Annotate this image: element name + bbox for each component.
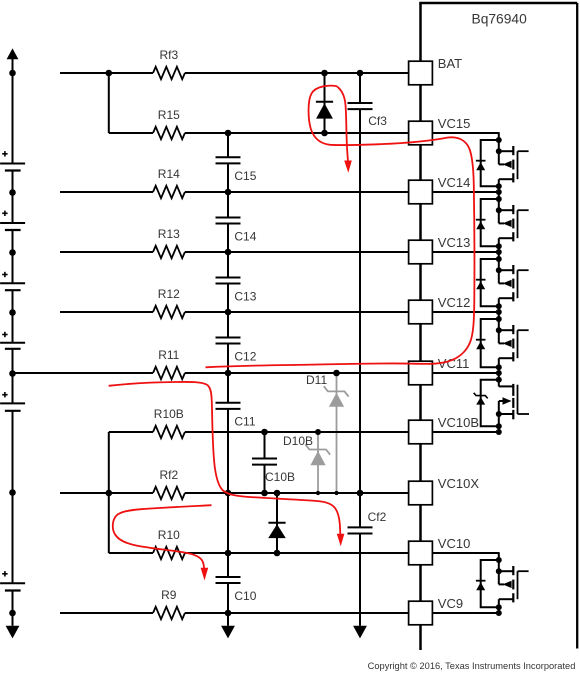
battery cell 5 negative plate (short) bbox=[5, 410, 21, 412]
svg-text:C10B: C10B bbox=[265, 470, 295, 484]
wire Q12 (VC12-VC11) node vertical lower bbox=[498, 358, 500, 373]
junction dot diode top at BAT row bbox=[321, 70, 328, 77]
wire VC9 row right segment to pin bbox=[185, 612, 409, 614]
wire Q12 (VC12-VC11) top connection from pin bbox=[432, 311, 498, 313]
battery stack wire segment 4 bbox=[12, 290, 14, 343]
diode (BAT-VC15) body line bbox=[324, 73, 326, 133]
junction dot bus at VC10X row bbox=[225, 490, 232, 497]
junction dot Rf2 row at x=108.5 bbox=[106, 490, 113, 497]
wire capacitor bus segment C14 to C13 bbox=[227, 224, 229, 278]
diode (VC10X-VC10) anode triangle bbox=[268, 524, 286, 538]
junction dot Q13 (VC13-VC12) bottom row node bbox=[496, 309, 502, 315]
diode Q10 (VC10-VC9) body-diode triangle bbox=[476, 582, 485, 590]
wire Q14 (VC14-VC13) node vertical upper bbox=[498, 191, 500, 210]
junction dot Q12 (VC12-VC11) gate node bbox=[496, 327, 502, 333]
wire VC12 row right segment to pin bbox=[185, 311, 409, 313]
wire Q12 (VC12-VC11) diode branch bbox=[481, 319, 499, 367]
svg-text:C10: C10 bbox=[234, 589, 256, 603]
capacitor C10 bbox=[216, 576, 241, 578]
wire Q10 (VC10-VC9) node vertical upper bbox=[498, 552, 500, 571]
wire VC10B row left segment bbox=[109, 431, 153, 433]
capacitor C10B bbox=[252, 458, 277, 460]
junction dot Q13 (VC13-VC12) diode-branch bottom bbox=[496, 303, 502, 309]
zener Q11 (VC11-VC10B) body-diode cathode bar with bent ends bbox=[474, 393, 488, 399]
wire Q15 (VC15-VC14) body contact bbox=[499, 163, 504, 165]
battery stack junction dot at VC13 level bbox=[9, 249, 16, 256]
zener Q11 (VC11-VC10B) body-diode triangle bbox=[476, 397, 485, 405]
svg-text:VC10: VC10 bbox=[438, 536, 471, 551]
wire Q12 (VC12-VC11) body contact bbox=[499, 342, 504, 344]
wire Q10 (VC10-VC9) gate lead bbox=[518, 570, 529, 572]
resistor R10B bbox=[153, 426, 185, 438]
svg-text:R12: R12 bbox=[158, 287, 180, 301]
svg-text:R10: R10 bbox=[158, 528, 180, 542]
wire C10B vertical top bbox=[264, 432, 266, 459]
svg-text:R11: R11 bbox=[158, 348, 179, 362]
wire VC9 row left segment bbox=[60, 612, 153, 614]
svg-text:VC10B: VC10B bbox=[438, 415, 479, 430]
battery stack junction dot at VC12 level bbox=[9, 309, 16, 316]
transistor Q13 (VC13-VC12) channel segments bbox=[512, 265, 514, 274]
junction dot bus at VC9 row bbox=[225, 610, 232, 617]
capacitor C13 bbox=[216, 276, 241, 278]
wire Q11 (VC11-VC10B) drain contact bbox=[499, 413, 514, 415]
wire vertical Rf3/R15 junction (x=108.5) bbox=[108, 73, 110, 133]
junction dot Q11 (VC11-VC10B) diode-branch bottom bbox=[496, 423, 502, 429]
transistor Q12 (VC12-VC11) body arrow (points left) bbox=[503, 340, 512, 347]
battery stack junction dot at R11 tap level bbox=[9, 370, 16, 377]
svg-text:C12: C12 bbox=[234, 349, 256, 363]
wire VC14 row right segment to pin bbox=[185, 191, 409, 193]
transistor Q11 (VC11-VC10B) channel segments bbox=[512, 384, 514, 396]
wire capacitor bus segment VC15 to C15 bbox=[227, 133, 229, 157]
wire Q15 (VC15-VC14) top connection from pin bbox=[432, 132, 498, 134]
zener diode D10B body line bbox=[317, 432, 319, 493]
svg-text:VC15: VC15 bbox=[438, 116, 471, 131]
wire Q15 (VC15-VC14) diode branch bbox=[481, 140, 499, 186]
wire Q13 (VC13-VC12) diode branch bbox=[481, 259, 499, 306]
transistor Q14 (VC14-VC13) body arrow (points left) bbox=[503, 220, 512, 227]
junction dot Q12 (VC12-VC11) diode-branch top bbox=[496, 316, 502, 322]
wire Q10 (VC10-VC9) body vertical bbox=[498, 571, 500, 584]
wire BAT row left segment bbox=[60, 72, 153, 74]
diode Q14 (VC14-VC13) body-diode cathode bar bbox=[476, 219, 486, 221]
pin box VC10X bbox=[409, 481, 433, 505]
wire capacitor bus segment C11 to C10 crossing VC10B row bbox=[227, 409, 229, 577]
junction dot Q10 (VC10-VC9) diode-branch top bbox=[496, 557, 502, 563]
IC Bq76940 pin bus vertical line bbox=[419, 3, 422, 650]
wire VC11 row left segment bbox=[13, 372, 154, 374]
resistor R10 bbox=[153, 547, 185, 559]
wire Q11 (VC11-VC10B) body contact bbox=[499, 400, 504, 402]
wire VC12 row left segment bbox=[60, 311, 153, 313]
junction dot C10B top at VC10B row bbox=[261, 429, 268, 436]
wire Q15 (VC15-VC14) source contact bbox=[499, 150, 514, 152]
wire Q10 (VC10-VC9) drain contact bbox=[499, 598, 514, 600]
IC Bq76940 box right edge bbox=[576, 3, 578, 649]
svg-text:BAT: BAT bbox=[438, 56, 462, 71]
capacitor C15 bbox=[216, 156, 241, 158]
wire Q15 (VC15-VC14) body vertical bbox=[498, 151, 500, 164]
wire capacitor bus segment C12 to C11 bbox=[227, 344, 229, 403]
wire Q10 (VC10-VC9) bottom connection to pin bbox=[432, 612, 498, 614]
resistor R12 bbox=[153, 306, 185, 318]
junction dot bus at VC12 row bbox=[225, 309, 232, 316]
wire Q13 (VC13-VC12) drain contact bbox=[499, 297, 514, 299]
junction dot Rf3 row at x=108.5 bbox=[106, 70, 113, 77]
pin box VC14 bbox=[409, 180, 433, 204]
diode (VC10X-VC10) cathode bar bbox=[268, 522, 285, 524]
resistor Rf2 bbox=[153, 487, 185, 499]
junction dot Cf vertical at BAT row bbox=[357, 70, 364, 77]
wire Q13 (VC13-VC12) body contact bbox=[499, 282, 504, 284]
battery cell 1 negative plate (short) bbox=[5, 169, 21, 171]
junction dot Cf vertical at VC10X row bbox=[357, 490, 364, 497]
junction dot D10B top at VC10B row bbox=[315, 429, 321, 435]
resistor R9 bbox=[153, 607, 185, 619]
red annotation curve R11 area down to Cf2 arrow bbox=[109, 382, 341, 535]
wire Q10 (VC10-VC9) body contact bbox=[499, 583, 504, 585]
wire VC10X row right segment to pin bbox=[185, 492, 409, 494]
pin box VC13 bbox=[409, 240, 433, 264]
svg-text:R15: R15 bbox=[158, 108, 180, 122]
svg-text:VC12: VC12 bbox=[438, 295, 471, 310]
pin box VC9 bbox=[409, 601, 433, 625]
svg-text:VC14: VC14 bbox=[438, 175, 471, 190]
svg-text:Rf2: Rf2 bbox=[159, 468, 178, 482]
svg-text:R10B: R10B bbox=[154, 407, 184, 421]
svg-text:C13: C13 bbox=[234, 289, 256, 303]
transistor Q10 (VC10-VC9) gate bar bbox=[517, 571, 519, 599]
junction dot Q10 (VC10-VC9) bottom row node bbox=[496, 610, 502, 616]
junction dot Q11 (VC11-VC10B) bottom row node bbox=[496, 429, 502, 435]
transistor Q12 (VC12-VC11) gate bar bbox=[517, 330, 519, 358]
svg-text:VC10X: VC10X bbox=[438, 476, 480, 491]
junction dot Q13 (VC13-VC12) gate node bbox=[496, 267, 502, 273]
battery stack wire segment 1 bbox=[12, 59, 14, 164]
junction dot Q14 (VC14-VC13) diode-branch bottom bbox=[496, 243, 502, 249]
junction dot Q15 (VC15-VC14) gate node bbox=[496, 148, 502, 154]
svg-text:Rf3: Rf3 bbox=[159, 48, 178, 62]
zener diode D10B anode triangle bbox=[310, 451, 325, 465]
wire VC14 row left segment bbox=[60, 191, 153, 193]
transistor Q15 (VC15-VC14) body arrow (points left) bbox=[503, 161, 512, 168]
wire capacitor bus segment C10 to R9 row bbox=[227, 583, 229, 626]
wire VC15 row right segment to pin bbox=[185, 132, 409, 134]
wire capacitor bus segment C13 to C12 bbox=[227, 284, 229, 338]
capacitor C11 bbox=[216, 402, 241, 404]
transistor Q13 (VC13-VC12) gate bar bbox=[517, 270, 519, 298]
wire Q14 (VC14-VC13) bottom connection to pin bbox=[432, 251, 498, 253]
wire Q14 (VC14-VC13) top connection from pin bbox=[432, 191, 498, 193]
junction dot Q13 (VC13-VC12) diode-branch top bbox=[496, 256, 502, 262]
battery cell 5 plus sign bbox=[2, 394, 7, 396]
transistor Q12 (VC12-VC11) channel segments bbox=[512, 325, 514, 334]
junction dot diode bottom at VC10 row bbox=[274, 550, 281, 557]
diode (BAT-VC15) anode triangle bbox=[316, 103, 333, 118]
battery stack wire segment 3 bbox=[12, 230, 14, 283]
resistor Rf3 bbox=[153, 67, 185, 79]
battery cell 1 positive plate (long) bbox=[0, 163, 25, 165]
wire Q10 (VC10-VC9) top connection from pin bbox=[432, 552, 498, 554]
junction dot Q10 (VC10-VC9) diode-branch bottom bbox=[496, 604, 502, 610]
wire Q14 (VC14-VC13) body vertical bbox=[498, 210, 500, 223]
battery cell 6 negative plate (short) bbox=[5, 589, 21, 591]
battery cell 3 negative plate (short) bbox=[5, 289, 21, 291]
red annotation loop around diode and long curve to VC11 pin bbox=[206, 86, 475, 368]
diode Q12 (VC12-VC11) body-diode cathode bar bbox=[476, 339, 486, 341]
IC Bq76940 box top edge bbox=[419, 2, 577, 5]
battery stack junction dot at VC14 level bbox=[9, 189, 16, 196]
wire Q15 (VC15-VC14) node vertical lower bbox=[498, 179, 500, 192]
wire VC11 row right segment to pin bbox=[185, 372, 409, 374]
wire Q13 (VC13-VC12) node vertical lower bbox=[498, 298, 500, 312]
wire Q13 (VC13-VC12) gate lead bbox=[518, 269, 529, 271]
diode Q13 (VC13-VC12) body-diode triangle bbox=[476, 281, 485, 289]
wire Q13 (VC13-VC12) body vertical bbox=[498, 270, 500, 283]
capacitor Cf2 bbox=[348, 526, 373, 528]
wire Q11 (VC11-VC10B) node vertical lower bbox=[498, 414, 500, 432]
battery cell 3 positive plate (long) bbox=[0, 282, 25, 284]
battery cell 5 positive plate (long) bbox=[0, 402, 25, 404]
svg-text:R13: R13 bbox=[158, 227, 180, 241]
junction dot Q12 (VC12-VC11) bottom row node bbox=[496, 370, 502, 376]
wire Q12 (VC12-VC11) body vertical bbox=[498, 330, 500, 343]
wire Cf vertical Cf3 to Cf2 crossing rows bbox=[359, 109, 361, 527]
wire VC13 row right segment to pin bbox=[185, 251, 409, 253]
svg-text:Cf3: Cf3 bbox=[368, 114, 387, 128]
wire Q11 (VC11-VC10B) gate lead bbox=[518, 413, 530, 415]
junction dot C10B bottom at VC10X row bbox=[261, 490, 268, 497]
resistor R14 bbox=[153, 186, 185, 198]
battery cell 6 plus sign bbox=[2, 573, 7, 575]
resistor R11 bbox=[153, 367, 185, 379]
ground arrow below Cf vertical bbox=[353, 626, 367, 639]
zener diode D11 anode triangle bbox=[329, 393, 344, 407]
wire Q12 (VC12-VC11) bottom connection to pin bbox=[432, 372, 498, 374]
wire Q12 (VC12-VC11) drain contact bbox=[499, 357, 514, 359]
red annotation S-curve around R10 bbox=[113, 505, 212, 568]
wire Q11 (VC11-VC10B) node vertical upper bbox=[498, 372, 500, 386]
junction dot diode top at VC10X row bbox=[274, 490, 281, 497]
junction dot D11 bottom at VC10X row bbox=[334, 491, 338, 495]
wire Q12 (VC12-VC11) gate lead bbox=[518, 329, 529, 331]
wire Q11 (VC11-VC10B) source contact bbox=[499, 385, 514, 387]
battery stack top arrow (up) bbox=[7, 48, 19, 59]
wire Q10 (VC10-VC9) node vertical lower bbox=[498, 599, 500, 613]
svg-text:Cf2: Cf2 bbox=[368, 510, 387, 524]
transistor Q15 (VC15-VC14) channel segments bbox=[512, 146, 514, 155]
diode (VC10X-VC10) body line bbox=[276, 493, 278, 553]
wire Q14 (VC14-VC13) gate lead bbox=[518, 209, 529, 211]
wire Q15 (VC15-VC14) bottom connection to pin bbox=[432, 191, 498, 193]
battery cell 4 positive plate (long) bbox=[0, 342, 25, 344]
battery stack wire segment 5 bbox=[12, 349, 14, 404]
wire Q10 (VC10-VC9) source contact bbox=[499, 570, 514, 572]
svg-text:R14: R14 bbox=[158, 167, 180, 181]
wire Q15 (VC15-VC14) gate lead bbox=[518, 150, 529, 152]
pin box BAT bbox=[409, 61, 433, 85]
wire Q11 (VC11-VC10B) top connection from pin bbox=[432, 372, 498, 374]
pin box VC15 bbox=[409, 121, 433, 145]
wire VC10 row left segment bbox=[109, 552, 153, 554]
transistor Q15 (VC15-VC14) gate bar bbox=[517, 151, 519, 179]
wire Q13 (VC13-VC12) bottom connection to pin bbox=[432, 311, 498, 313]
junction dot diode bottom at VC15 row bbox=[321, 130, 328, 137]
battery cell 2 positive plate (long) bbox=[0, 222, 25, 224]
junction dot Q12 (VC12-VC11) diode-branch bottom bbox=[496, 364, 502, 370]
battery stack wire segment 7 bbox=[12, 591, 14, 626]
wire Q14 (VC14-VC13) drain contact bbox=[499, 237, 514, 239]
wire capacitor bus segment C15 to C14 bbox=[227, 163, 229, 217]
diode Q14 (VC14-VC13) body-diode triangle bbox=[476, 221, 485, 229]
svg-text:R9: R9 bbox=[161, 588, 177, 602]
red annotation descender from loop bbox=[337, 87, 348, 162]
svg-text:VC9: VC9 bbox=[438, 596, 463, 611]
battery stack junction dot at R9 tap level bbox=[9, 610, 16, 617]
wire Q12 (VC12-VC11) node vertical upper bbox=[498, 311, 500, 330]
svg-text:D10B: D10B bbox=[283, 434, 313, 448]
battery cell 3 plus sign bbox=[2, 274, 7, 276]
battery cell 2 plus sign bbox=[2, 212, 7, 214]
red arrowhead below R10 bbox=[201, 568, 209, 581]
wire Cf vertical Cf2 to ground bbox=[359, 533, 361, 625]
transistor Q11 (VC11-VC10B) body arrow (points right) bbox=[503, 397, 512, 404]
pin box VC10 bbox=[409, 541, 433, 565]
wire VC10X row left segment bbox=[60, 492, 153, 494]
wire Q13 (VC13-VC12) top connection from pin bbox=[432, 251, 498, 253]
svg-text:D11: D11 bbox=[306, 373, 327, 387]
svg-text:C15: C15 bbox=[234, 169, 256, 183]
junction dot Q14 (VC14-VC13) bottom row node bbox=[496, 249, 502, 255]
capacitor C12 bbox=[216, 336, 241, 338]
diode Q15 (VC15-VC14) body-diode cathode bar bbox=[476, 160, 486, 162]
junction dot bus at VC14 row bbox=[225, 189, 232, 196]
junction dot bus at VC10 row bbox=[225, 550, 232, 557]
wire vertical R10B/Rf2/R10 junction (x=108.5) bbox=[108, 432, 110, 553]
wire Q15 (VC15-VC14) drain contact bbox=[499, 178, 514, 180]
wire Q13 (VC13-VC12) node vertical upper bbox=[498, 251, 500, 270]
wire Q13 (VC13-VC12) source contact bbox=[499, 269, 514, 271]
wire VC10 row right segment to pin bbox=[185, 552, 409, 554]
transistor Q14 (VC14-VC13) channel segments bbox=[512, 205, 514, 214]
wire VC13 row left segment bbox=[60, 251, 153, 253]
battery stack junction dot at BAT level bbox=[9, 70, 16, 77]
wire Q11 (VC11-VC10B) bottom connection to pin bbox=[432, 431, 498, 433]
junction dot Q11 (VC11-VC10B) diode-branch top bbox=[496, 377, 502, 383]
battery stack junction dot at Rf2 tap level bbox=[9, 489, 16, 496]
junction dot Q14 (VC14-VC13) gate node bbox=[496, 207, 502, 213]
junction dot bus at VC11 row bbox=[225, 370, 232, 377]
pin box VC12 bbox=[409, 300, 433, 324]
wire Q15 (VC15-VC14) node vertical upper bbox=[498, 132, 500, 151]
transistor Q11 (VC11-VC10B) gate bar bbox=[517, 385, 519, 414]
junction dot Q15 (VC15-VC14) bottom row node bbox=[496, 189, 502, 195]
wire Q12 (VC12-VC11) source contact bbox=[499, 329, 514, 331]
wire Q14 (VC14-VC13) node vertical lower bbox=[498, 238, 500, 252]
junction dot bus at VC15 row bbox=[225, 130, 232, 137]
wire Q10 (VC10-VC9) diode branch bbox=[481, 560, 499, 607]
junction dot D11 top at VC11 row bbox=[333, 370, 340, 377]
battery cell 4 plus sign bbox=[2, 334, 7, 336]
battery stack bottom ground arrow bbox=[6, 626, 20, 639]
pin box VC10B bbox=[409, 420, 433, 444]
transistor Q13 (VC13-VC12) body arrow (points left) bbox=[503, 280, 512, 287]
transistor Q10 (VC10-VC9) body arrow (points left) bbox=[503, 581, 512, 588]
battery stack wire segment 2 bbox=[12, 171, 14, 224]
junction dot Q11 (VC11-VC10B) drain node bbox=[496, 411, 502, 417]
wire Q14 (VC14-VC13) diode branch bbox=[481, 199, 499, 246]
wire Q11 (VC11-VC10B) body vertical bbox=[498, 401, 500, 414]
battery cell 6 positive plate (long) bbox=[0, 582, 25, 584]
junction dot Q15 (VC15-VC14) diode-branch bottom bbox=[496, 183, 502, 189]
junction dot Q10 (VC10-VC9) gate node bbox=[496, 568, 502, 574]
transistor Q10 (VC10-VC9) channel segments bbox=[512, 566, 514, 575]
wire VC10B row right segment to pin bbox=[185, 431, 409, 433]
wire C10B vertical bottom bbox=[264, 465, 266, 493]
transistor Q14 (VC14-VC13) gate bar bbox=[517, 210, 519, 238]
svg-text:Copyright © 2016, Texas Instru: Copyright © 2016, Texas Instruments Inco… bbox=[368, 661, 576, 671]
battery cell 4 negative plate (short) bbox=[5, 348, 21, 350]
wire Q11 (VC11-VC10B) diode branch bbox=[481, 380, 499, 427]
capacitor Cf3 bbox=[348, 102, 373, 104]
svg-text:Bq76940: Bq76940 bbox=[472, 11, 528, 26]
zener diode D10B cathode bar with bent ends bbox=[305, 444, 330, 454]
svg-text:VC13: VC13 bbox=[438, 235, 471, 250]
diode (BAT-VC15) cathode bar bbox=[316, 101, 333, 103]
resistor R15 bbox=[153, 127, 185, 139]
wire VC15 row left segment bbox=[109, 132, 153, 134]
diode Q12 (VC12-VC11) body-diode triangle bbox=[476, 341, 485, 349]
wire Q14 (VC14-VC13) source contact bbox=[499, 209, 514, 211]
capacitor C14 bbox=[216, 216, 241, 218]
wire BAT row right segment to pin bbox=[185, 72, 409, 74]
wire Q14 (VC14-VC13) body contact bbox=[499, 222, 504, 224]
diode Q10 (VC10-VC9) body-diode cathode bar bbox=[476, 580, 486, 582]
diode Q13 (VC13-VC12) body-diode cathode bar bbox=[476, 279, 486, 281]
diode Q15 (VC15-VC14) body-diode triangle bbox=[476, 162, 485, 170]
zener diode D11 cathode bar with bent ends bbox=[324, 386, 349, 396]
svg-text:C14: C14 bbox=[234, 229, 256, 243]
ground arrow below capacitor bus bbox=[221, 626, 235, 639]
junction dot Q14 (VC14-VC13) diode-branch top bbox=[496, 196, 502, 202]
pin box VC11 bbox=[409, 361, 433, 385]
red arrowhead near Cf2 bbox=[337, 534, 345, 546]
battery cell 2 negative plate (short) bbox=[5, 229, 21, 231]
junction dot Q15 (VC15-VC14) diode-branch top bbox=[496, 137, 502, 143]
red arrowhead of loop descender bbox=[344, 161, 352, 173]
junction dot bus at VC13 row bbox=[225, 249, 232, 256]
junction dot D10B bottom at VC10X row bbox=[316, 491, 320, 495]
battery stack wire segment 6 bbox=[12, 411, 14, 583]
svg-text:C11: C11 bbox=[234, 415, 255, 429]
battery cell 1 plus sign bbox=[2, 153, 7, 155]
zener diode D11 body line bbox=[336, 373, 338, 493]
resistor R13 bbox=[153, 246, 185, 258]
wire Cf vertical BAT row to Cf3 bbox=[359, 73, 361, 103]
